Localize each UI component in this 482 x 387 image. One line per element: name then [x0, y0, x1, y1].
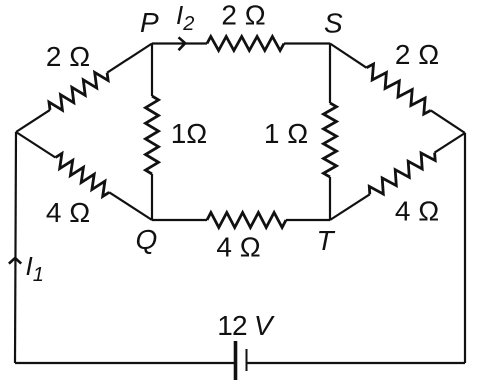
- wire node P down to resistor 1ohm left: [151, 44, 153, 97]
- svg-text:2 Ω: 2 Ω: [46, 41, 90, 72]
- svg-text:I2: I2: [176, 0, 194, 35]
- wire resistor 2ohm upper-right to right node: [431, 110, 465, 133]
- wire resistor 2ohm top to node S: [284, 42, 330, 44]
- wire right side vertical: [464, 133, 466, 363]
- current arrow I1 on left wire: [9, 258, 21, 264]
- svg-text:4 Ω: 4 Ω: [46, 197, 90, 228]
- wire node S to resistor 2ohm upper-right: [330, 44, 366, 68]
- resistor 2ohm upper-left zigzag: [49, 72, 108, 110]
- svg-text:Q: Q: [136, 224, 158, 255]
- wire left-node to resistor 4ohm lower-left: [16, 132, 55, 158]
- wire resistor 4ohm bottom to node T: [286, 219, 330, 221]
- wire resistor 1ohm left down to node Q: [151, 174, 153, 220]
- wire battery to bottom-right corner: [247, 362, 466, 364]
- svg-text:2 Ω: 2 Ω: [221, 0, 265, 31]
- wire resistor 1ohm right down to node T: [329, 177, 331, 220]
- svg-text:4 Ω: 4 Ω: [216, 232, 260, 263]
- wire node T to resistor 4ohm lower-right: [330, 194, 370, 220]
- battery 12V long plate: [234, 341, 238, 380]
- svg-text:S: S: [324, 8, 343, 39]
- svg-text:P: P: [140, 7, 159, 38]
- battery 12V short plate: [246, 349, 248, 371]
- wire bottom-left to battery: [15, 362, 236, 364]
- svg-text:2 Ω: 2 Ω: [395, 39, 439, 70]
- svg-text:1 Ω: 1 Ω: [264, 118, 308, 149]
- current arrow I2 on top wire: [179, 37, 186, 50]
- wire left side vertical: [15, 132, 16, 363]
- resistor 4ohm bottom zigzag: [207, 213, 286, 228]
- resistor 1ohm right-middle zigzag: [324, 103, 337, 177]
- resistor 4ohm lower-right zigzag: [369, 153, 435, 195]
- svg-text:1Ω: 1Ω: [171, 118, 208, 149]
- wire node P to resistor 2ohm top: [152, 42, 207, 44]
- resistor 1ohm left-middle zigzag: [146, 96, 159, 174]
- svg-text:4 Ω: 4 Ω: [395, 196, 439, 227]
- svg-text:12 V: 12 V: [217, 310, 275, 341]
- wire resistor 2ohm upper-left to node P: [107, 44, 152, 73]
- svg-text:T: T: [317, 225, 336, 256]
- resistor 2ohm upper-right zigzag: [366, 64, 430, 114]
- svg-text:I1: I1: [26, 251, 44, 286]
- resistor 2ohm top zigzag: [207, 37, 284, 51]
- wire resistor 4ohm lower-left to node Q: [109, 192, 152, 220]
- wire resistor 4ohm lower-right to right node: [435, 133, 465, 153]
- wire node S down to resistor 1ohm right: [329, 44, 331, 104]
- wire left-node to resistor 2ohm upper-left: [16, 110, 50, 132]
- wire node Q to resistor 4ohm bottom: [152, 219, 207, 221]
- resistor 4ohm lower-left zigzag: [55, 153, 109, 196]
